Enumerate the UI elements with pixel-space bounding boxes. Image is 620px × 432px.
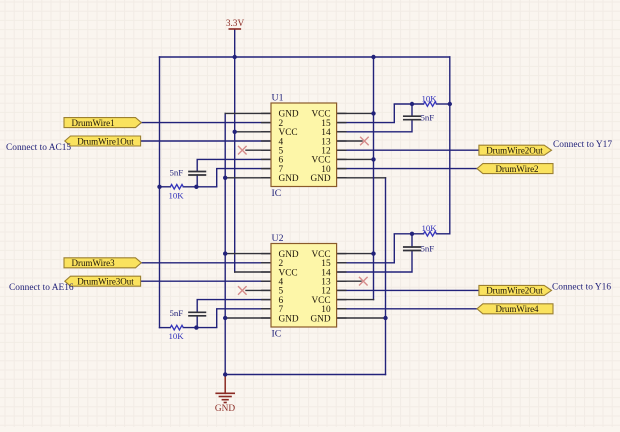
wire U1 right VCC pin1 (337, 112, 374, 114)
junction U2 left GND pin8 (223, 316, 227, 320)
wire RC to U1 pin7 (217, 169, 271, 187)
svg-text:DrumWire1: DrumWire1 (72, 118, 115, 128)
port DrumWire1Out (65, 136, 141, 146)
svg-text:DrumWire2: DrumWire2 (495, 164, 538, 174)
svg-text:Connect to AC15: Connect to AC15 (6, 143, 71, 153)
wire DrumWire3 to U2 pin2 (141, 262, 271, 264)
junction C2 / R2 (410, 102, 414, 106)
resistor R2 10K top-right (422, 93, 438, 106)
ground GND symbol (215, 376, 235, 415)
svg-text:DrumWire3: DrumWire3 (72, 258, 116, 268)
junction U1 left GND pin8 (223, 176, 227, 180)
capacitor C1 5nF top-left (170, 167, 206, 177)
power 3.3V (226, 19, 245, 29)
resistor R4 10K bottom-right (422, 223, 438, 236)
junction U1 left VCC (233, 130, 237, 134)
port DrumWire2Out lower (479, 285, 552, 295)
junction 3.3V bus / mid rail (371, 55, 375, 59)
wire RC to U2 pin7 (217, 309, 271, 328)
wire U1 left GND pin1 (225, 112, 271, 114)
wire top-left RC net (160, 186, 171, 188)
wire C1 top stem to U1 pin6 (197, 159, 271, 171)
wire U2 left VCC pin3 (235, 271, 271, 273)
port DrumWire3Out (65, 276, 141, 286)
no-connect X U2 pin13 (359, 277, 368, 286)
svg-text:10K: 10K (169, 190, 185, 200)
svg-text:GND: GND (279, 174, 299, 184)
wire U1 right GND pin8 (337, 177, 386, 179)
wire mid VCC rail (373, 57, 375, 300)
svg-text:DrumWire2Out: DrumWire2Out (486, 286, 543, 296)
capacitor C2 5nF top-right (404, 113, 434, 123)
IC U1 (271, 93, 337, 200)
wire VCC rail from power symbol (234, 30, 236, 272)
port DrumWire3 (64, 258, 141, 268)
wire bottom pullup net (394, 233, 423, 235)
svg-text:GND: GND (215, 404, 235, 414)
junction 3.3V bus / VCC rail (233, 55, 237, 59)
svg-text:Connect to AE16: Connect to AE16 (9, 283, 74, 293)
junction GND tee (223, 372, 227, 376)
junction U1 VCC pin1 (371, 111, 375, 115)
junction R1 left rail (157, 185, 161, 189)
wire U2 right VCC pin1 (337, 253, 374, 255)
wire C2 top stem (411, 104, 413, 116)
svg-text:DrumWire3Out: DrumWire3Out (77, 277, 134, 287)
junction C3 / R3 (194, 325, 198, 329)
no-connect X U2 pin5 (238, 286, 247, 295)
svg-text:DrumWire4: DrumWire4 (495, 304, 539, 314)
svg-text:Connect to Y17: Connect to Y17 (553, 140, 612, 150)
svg-text:U1: U1 (272, 93, 284, 104)
wire C1 bottom stem (196, 175, 198, 187)
capacitor C4 5nF bottom-right (404, 243, 434, 253)
port DrumWire1 (64, 118, 141, 128)
wire right GND rail (385, 178, 387, 375)
svg-text:DrumWire2Out: DrumWire2Out (486, 146, 543, 156)
resistor R3 10K bottom-left (169, 325, 185, 341)
svg-text:3.3V: 3.3V (226, 19, 245, 29)
svg-text:GND: GND (279, 314, 299, 324)
svg-text:5nF: 5nF (170, 308, 184, 318)
wire U1 pin14 to C2 bottom (337, 120, 412, 132)
wire U2 pin12 to DrumWire2Out (337, 289, 479, 291)
wire U1 right VCC pin6 (337, 158, 374, 160)
svg-text:5nF: 5nF (421, 243, 435, 253)
wire GND bottom run (225, 374, 385, 376)
wire top pullup net (394, 103, 423, 105)
wire U2 left GND pin1 (225, 253, 271, 255)
wire U2 left GND pin8 (225, 317, 271, 319)
svg-text:IC: IC (272, 188, 282, 199)
wire U2 pin13 no-connect stub (337, 280, 361, 282)
wire C4 top stem (411, 234, 413, 247)
junction C4 / R4 (410, 232, 414, 236)
wire U2 pin10 to DrumWire4 (337, 308, 477, 310)
wire DrumWire1Out to U1 pin4 (141, 140, 271, 142)
wire C3 bottom stem (196, 316, 198, 328)
wire U2 right VCC pin6 (337, 299, 374, 301)
svg-text:GND: GND (310, 174, 330, 184)
wire right pullup rail (449, 57, 451, 234)
wire U2 right GND pin8 (337, 317, 386, 319)
wire bottom-left RC net (160, 327, 171, 329)
svg-text:U2: U2 (272, 233, 284, 244)
wire C3 top stem to U2 pin6 (197, 300, 271, 313)
wire 3.3V top bus (160, 56, 450, 58)
svg-text:DrumWire1Out: DrumWire1Out (77, 136, 134, 146)
wire U1 pin5 no-connect stub (246, 149, 271, 151)
wire U2 pin15 to pullup R4 (337, 234, 395, 263)
wire U1 pin12 to DrumWire2Out (337, 149, 479, 151)
svg-text:10K: 10K (422, 223, 438, 233)
wire U2 pin5 no-connect stub (246, 289, 271, 291)
svg-text:5nF: 5nF (421, 113, 435, 123)
junction U1 VCC pin6 (371, 157, 375, 161)
port DrumWire2 (477, 164, 553, 174)
no-connect X U1 pin5 (238, 146, 247, 155)
port DrumWire4 (477, 304, 553, 314)
wire U2 pin14 to C4 bottom (337, 251, 412, 273)
wire DrumWire3Out to U2 pin4 (141, 280, 271, 282)
port DrumWire2Out upper (479, 145, 552, 155)
wire DrumWire1 to U1 pin2 (141, 122, 271, 124)
svg-text:GND: GND (310, 314, 330, 324)
IC U2 (271, 233, 337, 340)
junction U2 left GND pin1 (223, 251, 227, 255)
junction U2 VCC pin1 (371, 251, 375, 255)
wire U1 left GND pin8 (225, 177, 271, 179)
wire left GND rail (224, 113, 226, 374)
junction C1 / R1 (194, 185, 198, 189)
resistor R1 10K top-left (169, 185, 185, 201)
wire pin stubs U1 and U2 (262, 113, 346, 318)
junction R2 right rail (448, 102, 452, 106)
wire U1 pin15 to pullup R1 (337, 104, 395, 123)
junction U2 right GND pin8 (383, 316, 387, 320)
svg-text:IC: IC (272, 329, 282, 340)
svg-text:10K: 10K (169, 331, 185, 341)
wire U1 left VCC pin3 (235, 131, 271, 133)
wire U1 pin10 to DrumWire2 (337, 168, 477, 170)
svg-text:10K: 10K (422, 93, 438, 103)
no-connect X U1 pin13 (360, 137, 369, 146)
svg-text:5nF: 5nF (170, 167, 184, 177)
wire U1 pin13 no-connect stub (337, 140, 362, 142)
capacitor C3 5nF bottom-left (170, 308, 206, 318)
svg-text:Connect to Y16: Connect to Y16 (552, 283, 611, 293)
wire left 3.3V rail (159, 57, 161, 328)
